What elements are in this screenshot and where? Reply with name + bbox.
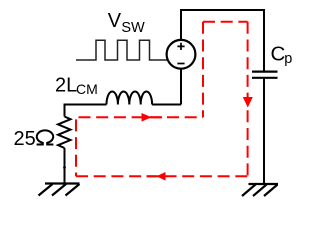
arrow left on bottom segment: [157, 172, 166, 181]
switching waveform symbol Vsw: [76, 40, 167, 60]
svg-text:SW: SW: [121, 20, 145, 36]
svg-text:C: C: [271, 42, 286, 65]
current loop upper-left vertical: [202, 22, 204, 118]
arrow down on right vertical: [243, 97, 253, 108]
junction dot: [63, 166, 66, 169]
wire source top to top-right corner and down to capacitor: [181, 10, 264, 71]
solid dash before left arrow: [147, 175, 157, 177]
current loop right vertical: [247, 22, 249, 177]
resistor 25ohm: [58, 117, 71, 149]
wire mid rail left segment and corner down: [65, 105, 107, 117]
wire capacitor to ground: [263, 79, 265, 184]
plus sign: [177, 43, 184, 50]
wire mid rail right segment: [152, 104, 181, 106]
inductor 2LCM: [107, 91, 153, 104]
svg-text:CM: CM: [76, 81, 98, 97]
svg-text:2L: 2L: [55, 74, 77, 96]
ground right: [242, 184, 278, 196]
ground left: [39, 184, 80, 196]
current loop bottom segment: [76, 175, 248, 177]
current loop top segment: [203, 21, 248, 23]
voltage source U1: [167, 40, 196, 69]
current loop left vertical: [75, 119, 77, 176]
minus sign: [177, 63, 184, 65]
capacitor Cp plates: [252, 72, 278, 78]
solid dash under right arrow: [151, 116, 163, 118]
arrow right on middle segment: [142, 113, 152, 122]
current loop middle horizontal: [79, 116, 204, 118]
svg-text:25: 25: [14, 128, 36, 150]
svg-text:p: p: [284, 51, 292, 67]
svg-text:V: V: [108, 10, 122, 32]
wire source bottom to mid rail: [180, 69, 182, 104]
wire resistor to ground: [64, 148, 66, 184]
